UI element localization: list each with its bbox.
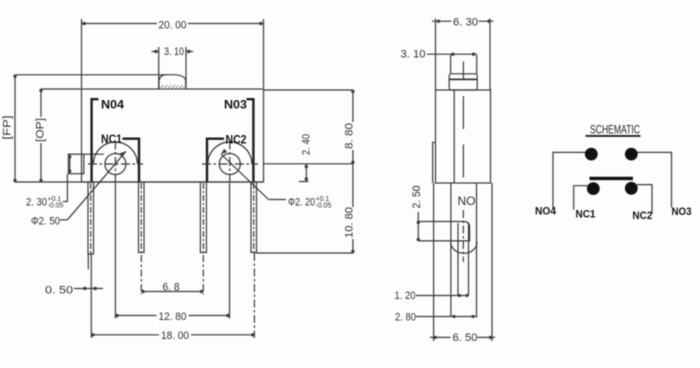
dim text 20.00 <box>157 18 188 32</box>
pin 4 terminal front view <box>251 182 257 253</box>
svg-text:2. 40: 2. 40 <box>301 134 313 155</box>
dim text 18.00 <box>159 330 191 342</box>
side view hidden plunger centerline <box>462 96 464 178</box>
schematic contact dot NC1 <box>587 182 600 195</box>
dimension FP <box>13 75 166 183</box>
schematic movable contact bar <box>590 177 634 180</box>
svg-text:[OP]: [OP] <box>35 118 47 142</box>
svg-text:1. 20: 1. 20 <box>395 290 416 302</box>
svg-text:NO4: NO4 <box>535 206 557 218</box>
hole center extension lines 12.80 <box>115 183 229 319</box>
plunger seal hatch band <box>161 85 186 88</box>
svg-text:10. 80: 10. 80 <box>343 207 355 238</box>
dim text 6.50 side <box>451 332 478 344</box>
pin 1 terminal front view <box>88 182 94 269</box>
schematic wire NC1 <box>574 186 588 210</box>
NC1 hole circle <box>105 154 126 175</box>
svg-text:8. 80: 8. 80 <box>343 123 355 149</box>
pin 2 terminal front view <box>139 182 145 253</box>
dimension 20.00 <box>82 19 264 88</box>
plunger dome front view <box>159 75 186 89</box>
dimension 6.50 side <box>430 336 495 339</box>
dimension 12.80 <box>115 314 229 317</box>
pin3 extension line <box>202 255 204 295</box>
pin1 extension line <box>90 269 92 338</box>
side view contact arc <box>451 242 477 253</box>
terminal NC1 thick line <box>123 139 140 182</box>
schematic contact dot NO3 <box>625 148 638 161</box>
side view plunger collar <box>449 74 477 90</box>
schematic contact dot NC2 <box>625 182 638 195</box>
dim text 8.80 rotated <box>343 122 356 150</box>
left mounting tab front view <box>68 154 104 174</box>
dimension 2.40 <box>299 164 309 182</box>
dimension 1.20 side <box>416 294 469 297</box>
side view contact hook top <box>418 222 470 242</box>
side view NO terminal pin <box>458 223 469 296</box>
leader diameter 2.20 <box>221 149 286 200</box>
svg-text:-0.05: -0.05 <box>48 203 64 210</box>
svg-text:NO: NO <box>458 194 476 208</box>
bottom mounting line <box>15 181 264 183</box>
side view inner edge line <box>453 90 455 183</box>
svg-text:SCHEMATIC: SCHEMATIC <box>590 123 640 137</box>
svg-text:18. 00: 18. 00 <box>161 330 189 342</box>
side view mounting tab edge <box>433 142 436 183</box>
NC2 hole circle <box>219 154 240 175</box>
dimension 18.00 <box>91 333 254 336</box>
NC1 centerlines <box>88 141 143 184</box>
dim text 2.40 rotated <box>300 133 313 157</box>
svg-text:3. 10: 3. 10 <box>164 46 184 58</box>
terminal N04 thick line <box>92 99 99 182</box>
side view lower body <box>434 183 492 341</box>
svg-text:Φ2. 50: Φ2. 50 <box>31 216 60 228</box>
svg-text:NC2: NC2 <box>226 133 247 147</box>
svg-text:Φ2. 20: Φ2. 20 <box>288 197 315 209</box>
terminal N03 thick line <box>247 99 254 182</box>
NC2 centerlines <box>202 141 258 184</box>
dim text 12.80 <box>157 311 189 324</box>
dimension 6.8 <box>141 290 203 293</box>
dimension 10.80 <box>351 164 354 253</box>
dimension OP <box>39 89 82 182</box>
front view body outline <box>82 89 264 182</box>
svg-text:2. 50: 2. 50 <box>411 186 423 209</box>
svg-text:NC1: NC1 <box>101 132 122 146</box>
leader 2.30 tab <box>63 174 67 202</box>
svg-text:NC2: NC2 <box>632 210 652 222</box>
pin tip extension line to 10.80 <box>257 252 354 254</box>
pin4 extension line <box>253 253 255 338</box>
svg-text:6. 8: 6. 8 <box>163 282 180 294</box>
dimension 2.80 side <box>416 315 477 318</box>
svg-text:0. 50: 0. 50 <box>45 285 73 297</box>
side view 6.30 dimension <box>432 19 494 91</box>
dim text OP rotated <box>35 117 47 143</box>
svg-text:6. 50: 6. 50 <box>453 332 478 344</box>
terminal NC2 thick line <box>207 139 224 182</box>
leader diameter 2.50 <box>60 151 126 220</box>
schematic wire NC2 <box>637 185 652 214</box>
NC1 mounting boss arch <box>93 142 137 164</box>
schematic wire NO4 <box>553 152 586 208</box>
dim text 10.80 rotated <box>343 207 356 239</box>
svg-text:NC1: NC1 <box>576 209 596 221</box>
dimension 3.10 front <box>152 47 194 89</box>
pin 3 terminal front view <box>200 182 206 253</box>
side view pin centerline <box>462 210 464 262</box>
svg-text:12. 80: 12. 80 <box>159 311 187 323</box>
schematic title underline <box>586 135 641 137</box>
dim text 2.30 with tolerance <box>26 196 64 210</box>
tab height dimension arrows 2.30 <box>68 154 71 174</box>
side view 3.10 dimension <box>427 53 477 56</box>
pin2 extension line <box>140 255 142 295</box>
svg-text:NO3: NO3 <box>672 206 692 218</box>
dimension 8.80 <box>351 90 354 164</box>
body top extension to 8.80 <box>264 89 354 91</box>
hole centerline extension to 8.80 <box>264 163 354 165</box>
svg-text:-0.05: -0.05 <box>316 203 332 210</box>
schematic wire NO3 <box>637 152 672 207</box>
svg-text:N03: N03 <box>224 98 247 112</box>
svg-text:2. 30: 2. 30 <box>26 197 47 209</box>
svg-text:3. 10: 3. 10 <box>401 49 426 61</box>
side view plunger centerline <box>462 62 464 80</box>
side view upper body <box>436 90 491 183</box>
NC2 mounting boss arch <box>208 142 252 164</box>
dimension 2.50 side <box>417 212 420 241</box>
svg-text:20. 00: 20. 00 <box>159 20 187 32</box>
dimension 0.50 pin1 <box>74 287 103 290</box>
svg-text:2. 80: 2. 80 <box>395 312 416 324</box>
dim text 6.30 side <box>452 16 479 29</box>
svg-text:[FP]: [FP] <box>2 116 14 140</box>
svg-text:N04: N04 <box>101 98 124 112</box>
svg-text:6. 30: 6. 30 <box>453 17 478 29</box>
dim text dia 2.20 with tolerance <box>288 196 332 210</box>
schematic contact dot NO4 <box>585 148 598 161</box>
side view plunger <box>451 55 477 74</box>
